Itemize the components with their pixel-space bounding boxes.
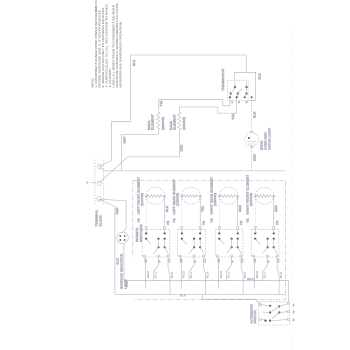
infinite switch S1 [137,218,172,262]
svg-text:CATOR LIGHT: CATOR LIGHT [267,128,271,151]
svg-text:BLK: BLK [206,271,210,278]
svg-text:LIGHT: LIGHT [124,279,128,289]
svg-text:GRY: GRY [123,136,127,143]
wires left rear element to switch [181,197,183,226]
wire L2 from bottom terminal [99,199,285,294]
svg-text:4-77: 4-77 [94,6,98,13]
svg-text:1: 1 [231,100,233,104]
svg-text:THERMOSTAT: THERMOSTAT [221,68,225,91]
console box (dash-dot) [133,180,286,299]
wires right rear element to switch [218,197,220,226]
svg-text:BLU: BLU [227,271,231,278]
svg-text:(2600W): (2600W) [249,193,253,206]
svg-text:P: P [267,260,271,262]
svg-text:1: 1 [293,303,295,307]
svg-text:RED: RED [247,277,255,281]
svg-text:BLU: BLU [154,271,158,278]
wires infinite switch s1 to buses [145,257,171,295]
svg-text:YEL: YEL [200,206,204,212]
svg-text:H1: H1 [239,220,243,224]
svg-text:BLK: BLK [252,111,256,118]
oven indicator light DS2 [245,128,272,151]
svg-text:3: 3 [246,100,248,104]
svg-text:H2: H2 [210,218,214,222]
svg-text:BLU: BLU [263,271,267,278]
infinite switch S2 [172,218,207,262]
svg-text:BLK: BLK [279,271,283,278]
svg-text:BLK: BLK [170,271,174,278]
svg-text:BLK: BLK [165,205,169,212]
svg-text:P: P [231,260,235,262]
ground [86,181,96,184]
svg-text:YEL: YEL [159,100,163,106]
wire to alternate switch [203,295,261,305]
svg-text:H1: H1 [275,220,279,224]
svg-text:RED: RED [253,153,257,161]
terminal block [95,160,104,227]
wire oven light to bus [251,148,253,171]
wire from surface indicator to bus [124,244,289,303]
wire L1 top bus [130,55,246,122]
svg-text:(3000W): (3000W) [182,117,186,130]
svg-text:RED: RED [255,270,259,278]
fold line (faint dotted) [292,26,294,350]
broil element R1 [147,100,165,135]
svg-text:RED: RED [238,204,242,212]
svg-text:H1: H1 [166,220,170,224]
wires left front element to switch [145,197,147,226]
svg-text:BLK: BLK [180,294,187,298]
right rear element [209,177,238,215]
svg-text:(2600W): (2600W) [161,117,165,130]
notes text block [91,0,123,88]
svg-text:P: P [193,260,197,262]
svg-text:H1: H1 [202,220,206,224]
wire L1 to terminal block [99,122,130,167]
wires infinite switch s3 to buses [218,257,244,295]
svg-text:RED: RED [180,144,184,152]
svg-text:IMPROPER AND DANGEROUS OPERATI: IMPROPER AND DANGEROUS OPERATION. [119,21,123,88]
svg-text:2: 2 [293,310,295,314]
left front element [136,177,165,215]
svg-text:L1: L1 [240,259,244,263]
wires infinite switch s2 to buses [180,257,206,295]
svg-text:SWITCH: SWITCH [253,310,257,323]
svg-text:BLK: BLK [132,59,136,66]
svg-text:(2100W): (2100W) [140,193,144,206]
infinite switch S3 [210,218,245,262]
wire L1 lower diagonal to bus [99,166,285,171]
svg-text:RED: RED [274,204,278,212]
svg-text:(1250W): (1250W) [176,193,180,206]
thermostat [221,68,261,103]
svg-text:L1: L1 [203,259,207,263]
wire thermostat to oven light [251,97,253,132]
infinite switch S4 [246,218,281,262]
alternate switch S5 [249,302,294,325]
svg-text:BLK: BLK [257,72,261,79]
svg-text:3: 3 [293,318,295,322]
svg-text:RED: RED [219,270,223,278]
left rear element [172,179,201,215]
wires right front element to switch [254,197,256,226]
svg-text:2: 2 [238,100,240,104]
svg-text:BLU: BLU [189,271,193,278]
svg-text:H2: H2 [137,218,141,222]
wire broil to thermostat [158,97,230,106]
svg-text:YEL: YEL [231,113,235,119]
svg-text:ELEMENT: ELEMENT [172,114,176,130]
svg-text:RED: RED [115,207,119,215]
wire bake to thermostat [179,97,236,113]
wire colour labels below switches [146,270,283,278]
svg-text:RED: RED [146,270,150,278]
wire to surface indicator light [99,199,126,232]
surface indicator light DS1 [116,232,129,289]
svg-text:L1: L1 [276,259,280,263]
svg-text:ELEMENT: ELEMENT [151,114,155,130]
wire neutral diagonal to bake element [99,152,179,183]
svg-text:L1: L1 [167,259,171,263]
right front element [245,175,274,215]
wire GRY broil return [122,135,159,171]
svg-text:H2: H2 [246,218,250,222]
svg-text:(1250W): (1250W) [213,193,217,206]
svg-text:SWITCHES: SWITCHES [139,224,143,242]
svg-text:BLOCK: BLOCK [99,214,103,226]
wires infinite switch s4 to buses [254,257,280,295]
svg-text:H2: H2 [172,218,176,222]
svg-text:RED: RED [182,270,186,278]
svg-text:P: P [157,260,161,262]
bake element R2 [169,107,186,152]
